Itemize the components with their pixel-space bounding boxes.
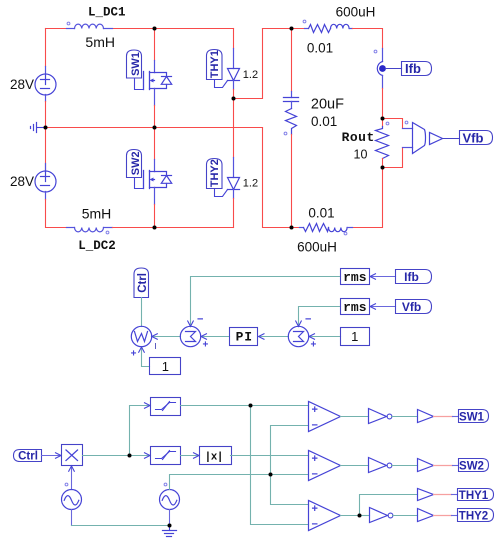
label tag THY1 bbox=[207, 50, 223, 80]
svg-text:PI: PI bbox=[236, 330, 253, 345]
label tag THY2 (out) bbox=[458, 509, 494, 523]
arrowhead into limiter2 bbox=[145, 453, 151, 459]
wire summer S2 to PI bbox=[259, 336, 289, 338]
wire comp3 out bbox=[341, 515, 360, 517]
svg-text:0.01: 0.01 bbox=[307, 41, 333, 56]
svg-text:1.2: 1.2 bbox=[243, 178, 258, 190]
node cap branch bottom bbox=[290, 226, 294, 230]
summer S2 bbox=[288, 314, 316, 351]
wire left rail upper bbox=[45, 29, 47, 67]
svg-text:I: I bbox=[155, 342, 157, 351]
wire mid rail to filter return bbox=[263, 128, 300, 228]
svg-text:−: − bbox=[312, 469, 318, 481]
svg-text:0.01: 0.01 bbox=[311, 114, 337, 129]
svg-text:−: − bbox=[305, 314, 311, 326]
svg-text:0.01: 0.01 bbox=[308, 206, 334, 221]
wire inverter3 to buffer4 bbox=[393, 515, 418, 517]
node comp3 branch bbox=[358, 514, 362, 518]
wire limiter1 to comp1 bbox=[181, 405, 309, 407]
svg-text:Ctrl: Ctrl bbox=[137, 273, 149, 293]
SECTION: gating bbox=[14, 398, 494, 537]
wire V2 to bottom rail bbox=[46, 200, 67, 228]
wire comp1 to inverter1 bbox=[341, 416, 369, 418]
label tag Vfb (mid) bbox=[396, 300, 432, 314]
inverter NOT2 bbox=[369, 458, 392, 473]
wire inverter2 to buffer2 bbox=[392, 465, 418, 467]
node cap branch top bbox=[290, 27, 294, 31]
wire sensor Vfb plus feed bbox=[383, 119, 403, 129]
source sine2 carrier bbox=[160, 483, 180, 525]
svg-text:+: + bbox=[311, 340, 317, 351]
label tag Ifb (mid) bbox=[396, 270, 432, 284]
SECTION: power stage bbox=[10, 5, 493, 255]
SECTION: rms control bbox=[131, 268, 432, 375]
svg-text:−: − bbox=[197, 314, 203, 326]
svg-text:L_DC2: L_DC2 bbox=[78, 239, 116, 253]
label tag THY2 bbox=[207, 159, 223, 189]
summer S1 bbox=[180, 314, 208, 351]
svg-text:1: 1 bbox=[162, 359, 169, 374]
svg-text:28V: 28V bbox=[10, 174, 34, 189]
constant block 1b bbox=[341, 328, 370, 346]
wire rms Vfb to summer S2 bbox=[299, 307, 341, 326]
wire buffer4 to THY2 tag bbox=[434, 515, 458, 517]
svg-text:1: 1 bbox=[351, 329, 358, 344]
op-amp comparator C1 bbox=[309, 402, 341, 432]
arrowhead into divider bottom bbox=[139, 347, 145, 352]
wire comp2 to inverter2 bbox=[341, 465, 369, 467]
svg-text:+: + bbox=[312, 404, 318, 416]
label tag SW1 bbox=[127, 50, 144, 90]
ground bbox=[31, 123, 46, 133]
svg-text:20uF: 20uF bbox=[311, 97, 344, 113]
wire sine1 to multiplier bbox=[71, 467, 73, 490]
block PI bbox=[230, 328, 258, 346]
wire load bottom to filter return bbox=[353, 168, 383, 228]
wire Ctrl to multiplier bbox=[42, 455, 62, 457]
svg-text:THY2: THY2 bbox=[459, 510, 488, 522]
block limiter2 bbox=[151, 447, 181, 465]
label tag Ctrl (mid) bbox=[134, 268, 149, 298]
wire multiplier out bbox=[83, 455, 130, 457]
arrowhead into S1 top bbox=[188, 321, 194, 326]
svg-text:THY1: THY1 bbox=[209, 50, 221, 78]
wire V1 to mid rail bbox=[45, 102, 47, 128]
constant block 1a bbox=[150, 358, 181, 375]
wire Ctrl to divider bbox=[141, 298, 143, 327]
svg-text:+: + bbox=[312, 453, 318, 465]
RL branch 0.01/600uH top bbox=[303, 20, 352, 32]
wire buffer3 to THY1 tag bbox=[434, 494, 458, 496]
svg-text:SW2: SW2 bbox=[459, 460, 484, 472]
node mid rail / SW junction bbox=[153, 126, 157, 130]
op-amp buffer Vfb bbox=[430, 133, 460, 145]
buffer B2 bbox=[418, 459, 434, 472]
op-amp comparator C2 bbox=[309, 451, 341, 481]
transistor SW2 bbox=[144, 160, 172, 205]
block limiter1 bbox=[151, 398, 181, 416]
label tag Vfb bbox=[460, 131, 493, 146]
label tag Ifb bbox=[402, 61, 432, 76]
arrowhead into PI right bbox=[259, 334, 265, 340]
wire limiter1 branch to comp3 minus bbox=[251, 406, 309, 525]
block abs |x| bbox=[200, 447, 232, 465]
inductor L_DC1 bbox=[67, 22, 113, 28]
arrowhead into S1 right bbox=[201, 334, 207, 340]
label tag THY1 (out) bbox=[458, 489, 494, 502]
arrowhead into rms Vfb bbox=[370, 304, 376, 310]
block rms (Vfb) bbox=[341, 299, 370, 316]
node modulation junction bbox=[128, 454, 132, 458]
wire SW1 drain bbox=[154, 29, 156, 61]
wire THY midpoint to right rail bbox=[234, 29, 263, 99]
wire mid rail bbox=[46, 127, 263, 129]
arrowhead into abs bbox=[194, 453, 200, 459]
node return junction bbox=[168, 524, 172, 528]
label tag SW1 (out) bbox=[459, 410, 489, 424]
arrowhead into multiplier bottom bbox=[69, 466, 75, 471]
wire filter top feed bbox=[263, 28, 305, 30]
arrowhead into S2 top bbox=[296, 321, 302, 326]
thyristor THY1 bbox=[215, 29, 240, 99]
svg-text:5mH: 5mH bbox=[85, 34, 115, 50]
svg-text:−: − bbox=[312, 518, 318, 530]
wire constant 1a to divider bbox=[142, 348, 150, 367]
svg-text:SW1: SW1 bbox=[130, 52, 142, 76]
label tag SW2 (out) bbox=[459, 459, 489, 473]
svg-text:|x|: |x| bbox=[206, 450, 223, 462]
svg-text:28V: 28V bbox=[10, 77, 34, 92]
wire top RL to Ifb bbox=[353, 29, 383, 49]
node top rail / SW1 bbox=[153, 27, 157, 31]
svg-text:Vfb: Vfb bbox=[463, 131, 484, 146]
arrowhead into multiplier left bbox=[56, 453, 62, 459]
wire junction to limiter1 bbox=[130, 406, 151, 456]
svg-text:SW2: SW2 bbox=[130, 151, 142, 175]
buffer B3 (THY1) bbox=[418, 489, 434, 501]
wire buffer1 to SW1 tag bbox=[434, 416, 459, 418]
wire SW2 source to bottom rail bbox=[154, 205, 156, 228]
node mid rail junction V1/V2 bbox=[44, 126, 48, 130]
wire limiter2 to abs bbox=[181, 455, 200, 457]
svg-text:+: + bbox=[312, 503, 318, 515]
node limiter1 branch bbox=[249, 404, 253, 408]
wire SW2 drain bbox=[154, 128, 156, 160]
sensor Ifb bbox=[374, 49, 401, 89]
wire rms Ifb to summer S1 bbox=[191, 277, 341, 326]
source V1 28V bbox=[35, 67, 56, 102]
arrowhead into divider right bbox=[152, 334, 158, 340]
wire comp3 to inverter3 bbox=[360, 515, 370, 517]
svg-text:+: + bbox=[131, 349, 137, 360]
svg-text:5mH: 5mH bbox=[82, 205, 112, 221]
svg-text:Ifb: Ifb bbox=[405, 61, 421, 76]
svg-text:Vfb: Vfb bbox=[402, 300, 421, 314]
node THY midpoint bbox=[232, 97, 236, 101]
wire top bridge rail bbox=[46, 28, 234, 30]
svg-text:THY1: THY1 bbox=[459, 490, 489, 502]
svg-text:Ifb: Ifb bbox=[404, 270, 419, 284]
wire tag Vfb to rms bbox=[370, 306, 396, 308]
node bottom rail / SW2 bbox=[153, 226, 157, 230]
op-amp comparator C3 bbox=[309, 501, 341, 531]
arrowhead into rms Ifb bbox=[370, 274, 376, 280]
thyristor THY2 bbox=[215, 99, 240, 228]
svg-text:rms: rms bbox=[343, 300, 367, 315]
divider U1 bbox=[131, 326, 157, 359]
wire comp3 to buffer THY1 bbox=[360, 495, 418, 516]
RL branch 0.01/600uH bottom bbox=[300, 224, 353, 235]
node load top bbox=[381, 117, 385, 121]
wire summer S1 to divider bbox=[153, 336, 181, 338]
svg-text:rms: rms bbox=[343, 270, 367, 285]
wire SW1 source to mid rail bbox=[154, 106, 156, 128]
node carrier junction bbox=[269, 473, 273, 477]
wire sine1 bottom return bbox=[72, 510, 170, 526]
wire Ifb to load node bbox=[382, 89, 384, 119]
inductor L_DC2 bbox=[67, 228, 113, 234]
wire tag Ifb to rms bbox=[370, 276, 396, 278]
inverter NOT3 bbox=[370, 508, 393, 523]
svg-text:SW1: SW1 bbox=[459, 411, 485, 423]
svg-text:+: + bbox=[203, 340, 209, 351]
source sine1 bbox=[62, 483, 82, 509]
svg-text:L_DC1: L_DC1 bbox=[88, 6, 126, 20]
wire carrier to comparators bbox=[170, 426, 309, 505]
arrowhead into limiter1 bbox=[145, 403, 151, 409]
inverter NOT1 bbox=[369, 409, 392, 424]
svg-text:Ctrl: Ctrl bbox=[18, 451, 38, 463]
wire bottom bridge rail bbox=[113, 227, 234, 229]
arrowhead into S2 right bbox=[309, 334, 315, 340]
transistor SW1 bbox=[144, 61, 172, 106]
capacitor C 20uF branch bbox=[284, 29, 299, 228]
wire abs to comp2 bbox=[231, 455, 309, 457]
node load bottom bbox=[381, 166, 385, 170]
svg-text:THY2: THY2 bbox=[209, 159, 221, 187]
svg-text:600uH: 600uH bbox=[336, 5, 376, 20]
svg-text:1.2: 1.2 bbox=[243, 69, 258, 81]
svg-text:10: 10 bbox=[354, 148, 368, 162]
wire sensor Vfb minus feed bbox=[383, 148, 403, 168]
svg-text:Rout: Rout bbox=[342, 130, 375, 145]
wire buffer2 to SW2 tag bbox=[434, 465, 459, 467]
block rms (Ifb) bbox=[341, 269, 370, 286]
ground (control) bbox=[163, 526, 177, 537]
svg-text:600uH: 600uH bbox=[297, 240, 337, 255]
multiplier M1 bbox=[62, 445, 83, 466]
wire junction to limiter2 bbox=[130, 455, 151, 457]
wire PI to summer S1 bbox=[202, 336, 230, 338]
buffer B4 (THY2) bbox=[418, 509, 434, 522]
wire constant 1b to summer S2 bbox=[310, 336, 341, 338]
label tag SW2 bbox=[127, 150, 144, 189]
source V2 28V bbox=[35, 128, 56, 200]
label tag Ctrl (bottom) bbox=[14, 450, 42, 463]
sensor Vfb probe bbox=[386, 121, 425, 153]
svg-text:−: − bbox=[312, 420, 318, 432]
resistor Rout bbox=[376, 119, 389, 168]
wire inverter1 to buffer1 bbox=[392, 416, 418, 418]
buffer B1 bbox=[418, 410, 434, 423]
